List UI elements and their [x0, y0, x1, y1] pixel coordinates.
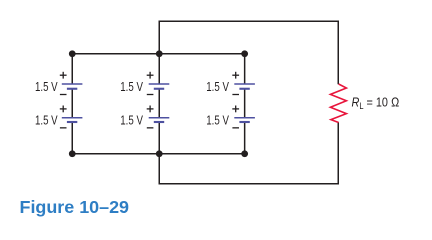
polarity - sign battery B5: [232, 94, 239, 96]
battery B1 (top left) plates: [62, 84, 83, 89]
wire branch 1 segments: [71, 54, 73, 84]
wire top loop: middle branch to top rail of outer loop: [159, 21, 338, 84]
polarity - sign battery B4: [147, 127, 154, 129]
polarity - sign battery B6: [232, 127, 239, 129]
polarity + sign battery B1: [60, 72, 67, 79]
battery B2 (bottom left) plates: [62, 118, 83, 122]
svg-text:Figure 10–29: Figure 10–29: [20, 197, 130, 217]
resistor RL zigzag: [330, 84, 346, 123]
wire bottom bus rail: [72, 153, 245, 155]
polarity + sign battery B5: [232, 72, 239, 79]
svg-text:RL = 10 Ω: RL = 10 Ω: [352, 95, 400, 111]
polarity - sign battery B1: [60, 94, 67, 96]
polarity - sign battery B2: [60, 127, 67, 129]
polarity + sign battery B4: [147, 106, 154, 113]
polarity - sign battery B3: [147, 94, 154, 96]
battery B5 (top right) plates: [234, 84, 255, 89]
svg-text:1.5 V: 1.5 V: [120, 79, 143, 94]
wire bottom loop: middle branch to bottom of outer loop: [159, 122, 338, 183]
wire branch 3 segments: [244, 54, 246, 84]
svg-text:1.5 V: 1.5 V: [35, 113, 58, 128]
battery B6 (bottom right) plates: [234, 118, 255, 122]
svg-text:1.5 V: 1.5 V: [206, 113, 229, 128]
polarity + sign battery B3: [147, 72, 154, 79]
polarity + sign battery B6: [232, 106, 239, 113]
svg-text:1.5 V: 1.5 V: [206, 79, 229, 94]
polarity + sign battery B2: [60, 106, 67, 113]
battery B3 (top middle) plates: [149, 84, 170, 89]
battery B4 (bottom middle) plates: [149, 118, 170, 122]
wire top bus rail: [72, 53, 245, 55]
wire branch 2 segments: [158, 54, 160, 84]
svg-text:1.5 V: 1.5 V: [120, 113, 143, 128]
svg-text:1.5 V: 1.5 V: [35, 79, 58, 94]
node junction dots bottom rail: [69, 150, 248, 157]
node junction dots top rail: [69, 50, 248, 57]
